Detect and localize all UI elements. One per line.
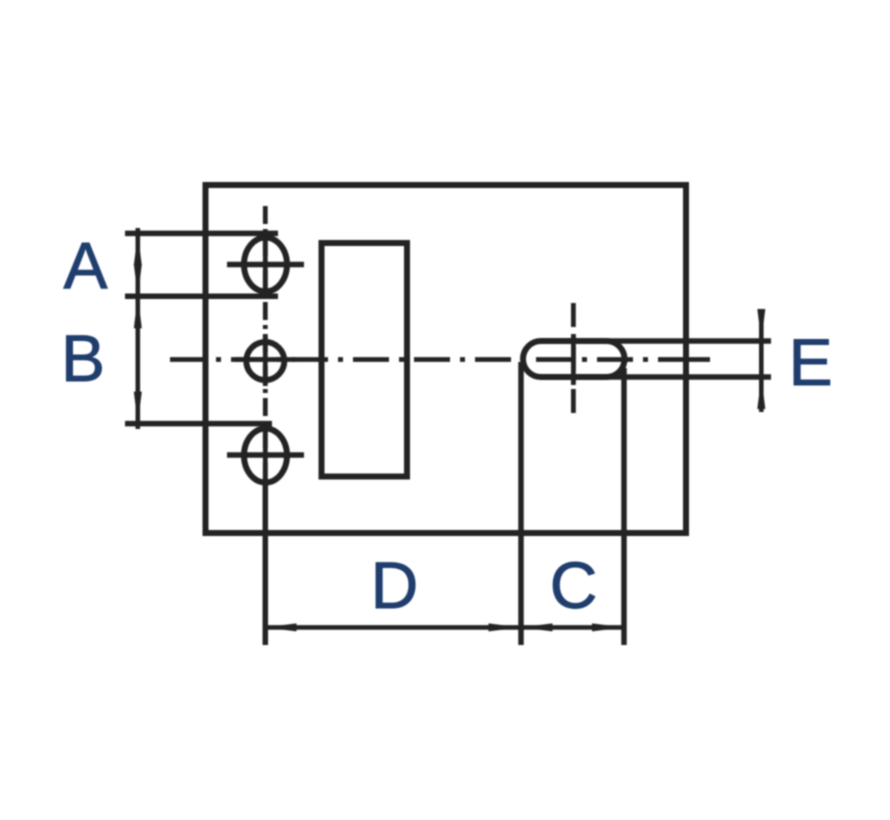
svg-text:A: A (63, 229, 107, 303)
middle hole horizontal center segment (235, 357, 295, 362)
horizontal centerline (dash-dot) (170, 357, 684, 362)
arrow B top (134, 296, 142, 328)
arrow E bottom (757, 377, 765, 409)
extension line B bottom (125, 421, 272, 427)
arrow A top (134, 233, 142, 265)
arrow A bottom (134, 264, 142, 296)
svg-text:C: C (550, 548, 598, 622)
arrow D left (265, 623, 297, 631)
svg-text:D: D (371, 548, 419, 622)
extension line A top (125, 231, 278, 237)
middle hole vertical center segment (263, 336, 268, 386)
slot vertical center mark (571, 303, 576, 413)
arrow E top (757, 309, 765, 341)
arrow C right (592, 623, 624, 631)
bottom hole ellipse (244, 429, 287, 483)
top hole ellipse (244, 238, 287, 292)
extension tick at slot right (621, 368, 627, 645)
vertical centerline extension to D dimension (263, 480, 269, 645)
svg-text:E: E (789, 325, 833, 399)
vertical centerline through holes (dash-dot) (263, 206, 268, 480)
centerline final dash (688, 357, 710, 362)
plate outline (206, 185, 687, 533)
top hole vertical center segment (263, 237, 268, 293)
extension tick at slot left (518, 362, 524, 645)
slot bottom extension line to E (545, 374, 771, 380)
arrow C left (521, 623, 553, 631)
E dimension line (759, 310, 764, 412)
horizontal rounded slot (523, 341, 625, 377)
svg-text:B: B (61, 321, 105, 395)
arrow D right (489, 623, 521, 631)
top hole crossbar (227, 262, 304, 268)
arrow B bottom (134, 392, 142, 424)
slot top extension line to E (545, 338, 771, 344)
extension line A/B middle (125, 294, 278, 300)
left dimension line (136, 228, 141, 429)
bottom hole crossbar (227, 452, 304, 458)
bottom hole vertical center segment (263, 428, 268, 484)
bottom dimension line (263, 625, 625, 630)
slot vertical center segment (571, 335, 576, 385)
middle hole circle (246, 342, 284, 380)
vertical slot rectangle (322, 243, 408, 477)
